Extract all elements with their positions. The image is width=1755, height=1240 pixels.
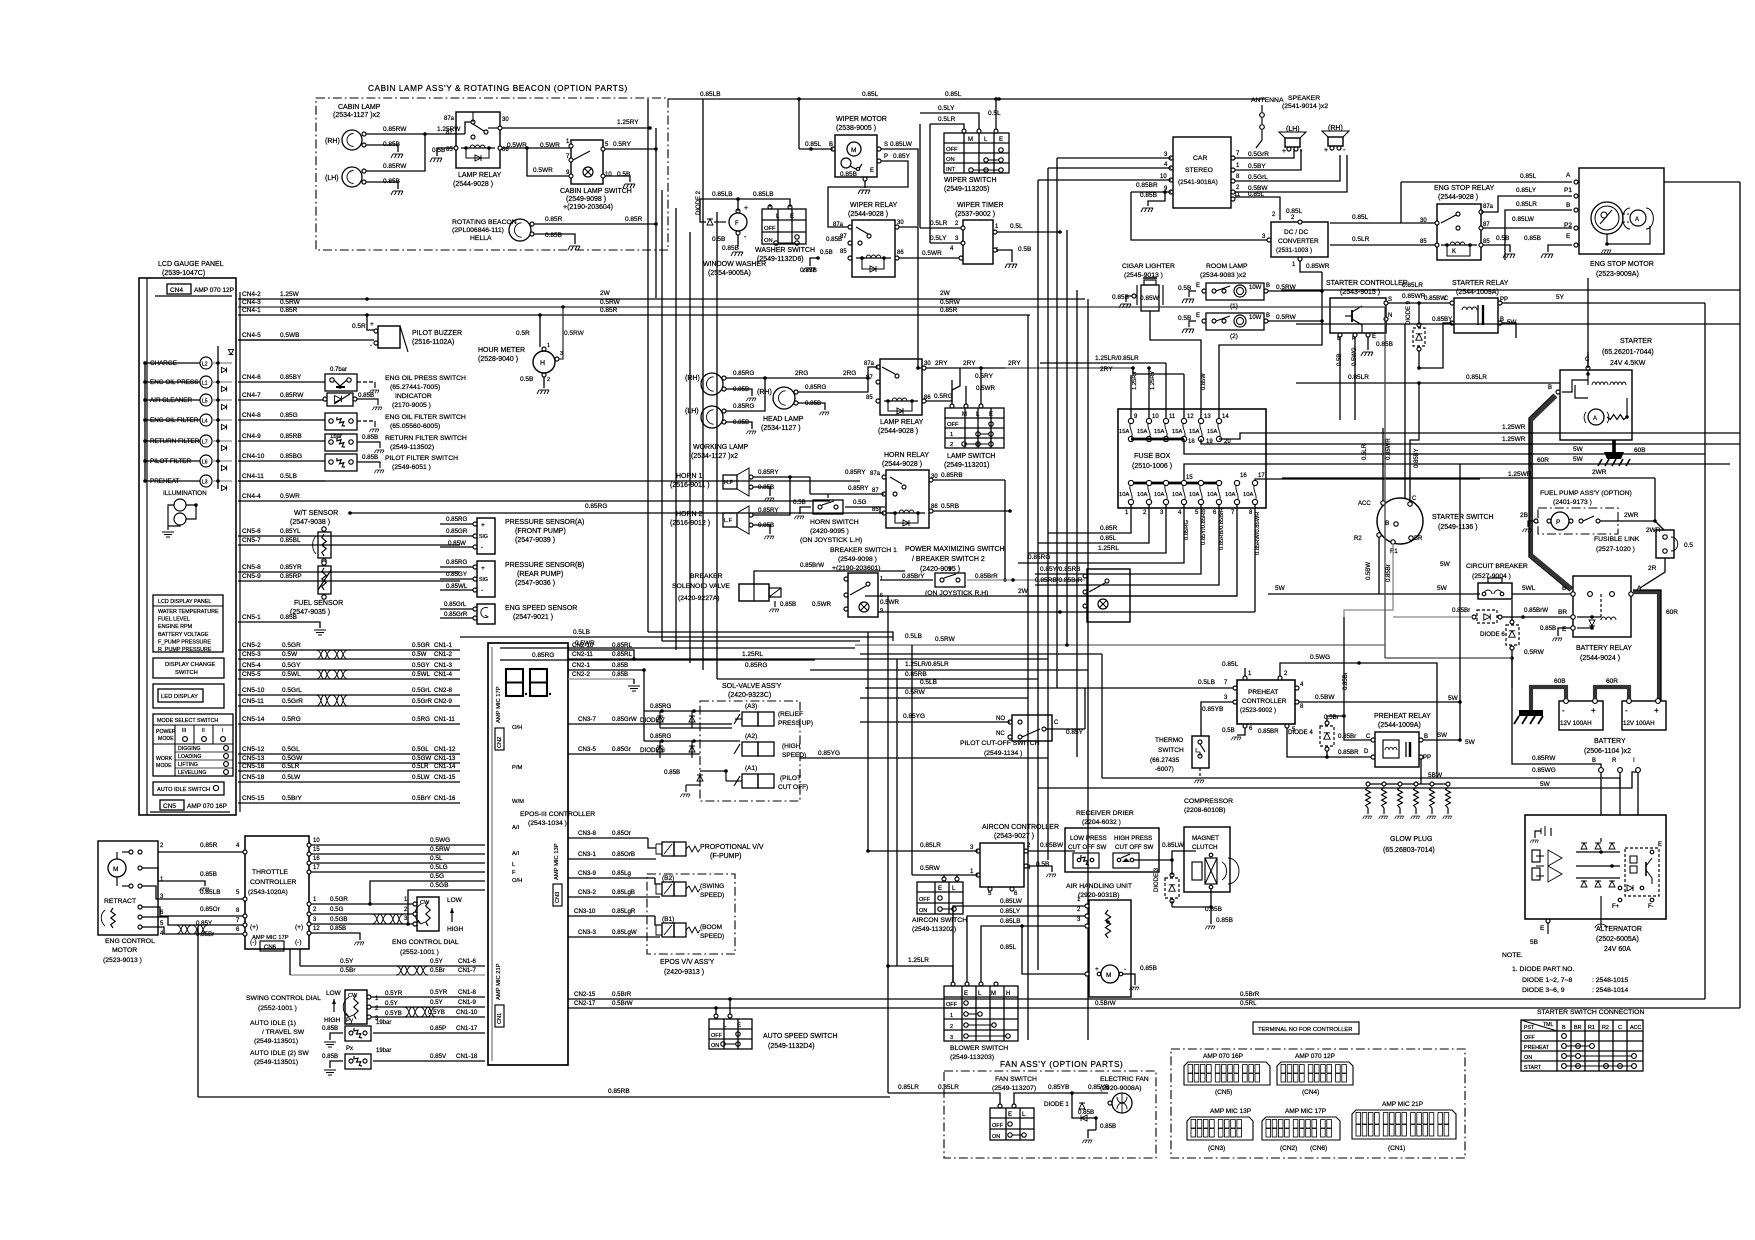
wire 2R from fusible link	[1640, 558, 1665, 588]
wire heavy 60R battery bridge	[1595, 678, 1629, 699]
wire 0.85WR from DC/DC	[1300, 261, 1330, 272]
svg-text:CN1-16: CN1-16	[434, 795, 456, 802]
svg-text:(2549-113203): (2549-113203)	[950, 1054, 994, 1061]
svg-text:LOW: LOW	[326, 990, 342, 997]
svg-text:0.85LR: 0.85LR	[1402, 282, 1423, 289]
svg-text:0.5WR: 0.5WR	[976, 385, 995, 392]
relay PREHEAT RELAY (2544-1009A)	[1338, 713, 1431, 767]
wire 0.5LB top run	[460, 536, 893, 637]
svg-text:1.25RY: 1.25RY	[617, 119, 639, 126]
connector AMP MIC 17P (CN2)(CN6)	[1262, 1108, 1340, 1152]
wire 1.25RL row	[710, 656, 1048, 659]
svg-text:2W: 2W	[940, 290, 951, 297]
svg-text:(2516-1102A): (2516-1102A)	[412, 339, 454, 346]
svg-text:0.85B: 0.85B	[664, 769, 680, 776]
svg-text:0.5RL: 0.5RL	[1240, 1000, 1257, 1007]
svg-text:+: +	[1591, 706, 1596, 715]
svg-text:(CN3): (CN3)	[1208, 1145, 1225, 1152]
wire 0.85LW to motor P2	[1483, 216, 1578, 230]
svg-text:1.25WR: 1.25WR	[1502, 424, 1526, 431]
svg-text:87a: 87a	[864, 361, 875, 367]
svg-text:E: E	[1372, 334, 1376, 340]
svg-text:0.85YG: 0.85YG	[818, 750, 840, 757]
wire 0.85RB left drop	[198, 907, 204, 1097]
wire preheat relay PP 5BW	[1421, 759, 1443, 784]
svg-text:L1: L1	[202, 381, 208, 387]
wire 0.85BY starter switch C	[1410, 383, 1420, 504]
svg-text:60B: 60B	[1634, 447, 1646, 454]
wire CN4-1 0.85R	[238, 307, 1030, 317]
svg-text:0.85RG: 0.85RG	[733, 403, 755, 410]
svg-text:(2547-9021 ): (2547-9021 )	[513, 614, 553, 621]
wire 2W long	[865, 595, 1237, 597]
svg-text:0.85BY: 0.85BY	[1414, 448, 1420, 468]
wire 0.85L to motor A	[1401, 172, 1740, 184]
svg-text:CN2-15: CN2-15	[574, 991, 596, 998]
svg-text:CN4-7: CN4-7	[242, 392, 261, 399]
svg-text:0.85W: 0.85W	[1201, 373, 1207, 390]
svg-text:ON: ON	[992, 1134, 1000, 1140]
svg-text:E: E	[1658, 842, 1662, 848]
lamp RH (cabin)	[325, 130, 366, 150]
svg-text:L4: L4	[202, 419, 208, 425]
svg-text:87: 87	[872, 488, 879, 494]
wire CN3-2 0.85LgB	[568, 889, 660, 897]
svg-text:C: C	[1366, 734, 1371, 740]
svg-text:0.5RG: 0.5RG	[412, 716, 430, 723]
svg-text:(A3): (A3)	[745, 703, 757, 710]
svg-text:(2544-9024 ): (2544-9024 )	[1580, 655, 1620, 662]
svg-text:CN4: CN4	[170, 287, 183, 294]
svg-text:B: B	[1592, 758, 1596, 764]
wire fuse2 0.85L drop	[1038, 504, 1149, 543]
wire 0.85YG from A1	[726, 750, 1048, 781]
svg-text:0.5WG: 0.5WG	[1310, 654, 1330, 661]
svg-text:0.85Gr: 0.85Gr	[612, 746, 631, 753]
svg-text:II: II	[202, 728, 205, 734]
svg-text:0.85LB: 0.85LB	[200, 889, 221, 896]
svg-text:0.85BrW: 0.85BrW	[1524, 607, 1548, 614]
svg-text:THROTTLE: THROTTLE	[252, 869, 288, 876]
svg-text:(CN2): (CN2)	[1280, 1145, 1297, 1152]
svg-text:ACC: ACC	[1630, 1025, 1641, 1031]
svg-text:B: B	[1562, 585, 1566, 592]
svg-text:9: 9	[880, 608, 883, 614]
svg-text:0.85Or: 0.85Or	[200, 906, 221, 913]
svg-text:5W: 5W	[1465, 739, 1476, 746]
relay HORN RELAY (2544-9028)	[870, 452, 938, 528]
wire 1.25LR blower feed	[886, 957, 953, 982]
svg-text:OFF: OFF	[947, 422, 959, 428]
svg-text:1.25LR/0.85LR: 1.25LR/0.85LR	[905, 661, 949, 668]
svg-text:CN1-12: CN1-12	[434, 746, 456, 753]
svg-text:FUEL PUMP ASS'Y (OPTION): FUEL PUMP ASS'Y (OPTION)	[1540, 490, 1632, 497]
wire 0.85BY to relay	[1419, 323, 1452, 368]
svg-text:0.85BR: 0.85BR	[1258, 728, 1279, 735]
wire 0.85WG to alternator	[1102, 767, 1620, 786]
svg-text:AMP MIC 17P: AMP MIC 17P	[1285, 1108, 1326, 1115]
wire 0.5L wiper switch E	[988, 97, 1001, 129]
wire 0.85RW RH	[366, 126, 425, 134]
svg-text:0.85G: 0.85G	[280, 412, 298, 419]
svg-text:0.85BY: 0.85BY	[1432, 316, 1452, 323]
svg-text:+: +	[481, 565, 485, 572]
svg-text:CN5-10: CN5-10	[242, 687, 265, 694]
svg-text:ACC: ACC	[1358, 501, 1371, 507]
svg-text:CUT OFF SW: CUT OFF SW	[1068, 844, 1107, 851]
label STARTER CONTROLLER	[1326, 280, 1408, 296]
wire eng motor pin1 0.85B	[142, 868, 217, 891]
svg-text:0.5Y: 0.5Y	[340, 958, 354, 965]
svg-text:CN5-12: CN5-12	[242, 746, 265, 753]
svg-text:0.85RG: 0.85RG	[585, 503, 607, 510]
svg-text:(RH): (RH)	[325, 138, 340, 145]
svg-text:PREHEAT: PREHEAT	[1524, 1045, 1550, 1051]
svg-text:ILLUMINATION: ILLUMINATION	[163, 490, 207, 497]
wire starter C feed	[1587, 278, 1589, 368]
breaker CIRCUIT BREAKER (2527-9004)	[1466, 563, 1571, 599]
fuse 10A #2	[1137, 480, 1152, 516]
svg-text:FAN SWITCH: FAN SWITCH	[995, 1076, 1037, 1083]
wire 0.85RG branch A2	[644, 733, 740, 743]
radio CAR STEREO (2541-9016A)	[1160, 137, 1241, 208]
svg-text:87a: 87a	[870, 471, 881, 477]
svg-text:(2420-9095 ): (2420-9095 )	[920, 566, 960, 573]
svg-text:0.5LB: 0.5LB	[905, 633, 922, 640]
svg-text:R1: R1	[1390, 549, 1398, 555]
svg-text:0.5LB: 0.5LB	[920, 679, 937, 686]
wire 0.85RG run2	[500, 652, 815, 660]
wire 0.85LR to aircon	[866, 842, 978, 853]
svg-text:0.5GrR: 0.5GrR	[412, 698, 432, 705]
svg-text:ON: ON	[919, 908, 927, 914]
svg-text:0.5BrW: 0.5BrW	[612, 1000, 633, 1007]
wire fuse1 0.85R drop	[1048, 504, 1131, 533]
diode DIODE 5	[1393, 607, 1573, 623]
svg-text:(2208-6010B): (2208-6010B)	[1184, 807, 1226, 814]
svg-text:LED DISPLAY: LED DISPLAY	[161, 694, 198, 700]
svg-text:0.5G: 0.5G	[330, 906, 344, 913]
svg-text:S: S	[884, 142, 888, 148]
svg-text:OFF: OFF	[992, 1123, 1004, 1129]
svg-text:0.85RY: 0.85RY	[845, 469, 866, 476]
svg-text:2R: 2R	[1648, 565, 1657, 572]
label EPOS V/V ASS'Y	[660, 959, 715, 976]
svg-text:(2549-113501): (2549-113501)	[254, 1059, 298, 1066]
wire 0.85B LH to ground	[366, 178, 403, 195]
svg-text:CN3-8: CN3-8	[578, 830, 596, 837]
svg-text:CN4-2: CN4-2	[242, 291, 261, 298]
fuse 10A #8	[1243, 480, 1258, 516]
label WIPER SWITCH	[944, 177, 997, 193]
svg-text:2RG: 2RG	[795, 370, 808, 377]
fuse 10A #1	[1119, 480, 1134, 516]
wire 0.85WR starter switch	[1386, 324, 1405, 502]
svg-text:13: 13	[1204, 414, 1211, 420]
svg-text:10W: 10W	[1249, 315, 1262, 321]
wire fuse5 drop	[1035, 504, 1207, 574]
svg-text:CIGAR LIGHTER: CIGAR LIGHTER	[1122, 263, 1175, 270]
wire 0.5LR starter switch ACC	[1362, 420, 1383, 501]
svg-text:(2549-113207): (2549-113207)	[992, 1085, 1036, 1092]
svg-text:B: B	[1424, 734, 1428, 740]
svg-text:(A1): (A1)	[745, 765, 757, 772]
svg-text:A: A	[1566, 172, 1571, 179]
wire 0.5LR to wiper switch	[930, 116, 964, 129]
fuse box pins 18 19 20	[1131, 433, 1266, 454]
svg-text:0.5B: 0.5B	[617, 171, 630, 178]
svg-text:1: 1	[950, 432, 953, 438]
svg-text:: 2548-1015: : 2548-1015	[1592, 977, 1629, 984]
svg-text:RETRACT: RETRACT	[104, 898, 136, 905]
svg-text:15A: 15A	[1207, 429, 1217, 435]
svg-text:0.85BW: 0.85BW	[1040, 842, 1064, 849]
svg-text:0.85LB: 0.85LB	[700, 91, 721, 98]
svg-text:0.85RG: 0.85RG	[1028, 554, 1050, 561]
label CIGAR LIGHTER	[1122, 263, 1175, 279]
wire 2WR down fusible	[1646, 478, 1664, 534]
svg-text:0.5LW: 0.5LW	[282, 774, 301, 781]
relay STARTER RELAY	[1432, 280, 1516, 333]
wire 0.5BY	[1235, 149, 1301, 170]
svg-text:CN5-5: CN5-5	[242, 671, 261, 678]
svg-text:ON: ON	[711, 1043, 719, 1049]
wire CN2-2 0.85B	[568, 671, 640, 691]
svg-text:0.85W: 0.85W	[1140, 295, 1160, 302]
svg-text:2RY: 2RY	[1100, 366, 1113, 373]
svg-text:M: M	[991, 991, 996, 997]
fuse 15A #9	[1119, 414, 1138, 442]
svg-text:(2547-9036 ): (2547-9036 )	[515, 580, 555, 587]
wire preheat pin2 0.5WG	[1280, 654, 1437, 778]
fuse 10A #4	[1172, 480, 1187, 516]
svg-text:SIG: SIG	[479, 577, 488, 583]
svg-text:PILOT FILTER SWITCH: PILOT FILTER SWITCH	[385, 455, 458, 462]
svg-text:CN3-10: CN3-10	[574, 908, 596, 915]
svg-text:TERMINAL NO FOR CONTROLLER: TERMINAL NO FOR CONTROLLER	[1258, 1027, 1352, 1033]
svg-text:PREHEAT RELAY: PREHEAT RELAY	[1374, 713, 1431, 720]
svg-text:ALTERNATOR: ALTERNATOR	[1596, 926, 1642, 933]
svg-text:0.5RG: 0.5RG	[934, 393, 953, 400]
lamp ILLUMINATION	[162, 490, 207, 537]
svg-text:SW: SW	[1437, 732, 1447, 739]
svg-text:0.85RY: 0.85RY	[758, 469, 779, 476]
svg-text:0.85RW/0.85WR: 0.85RW/0.85WR	[1255, 512, 1261, 555]
svg-text:AMP MIC 13P: AMP MIC 13P	[554, 843, 560, 880]
wire 0.5B controller B down	[1337, 337, 1343, 420]
svg-text:N: N	[1388, 313, 1392, 319]
svg-text:15A: 15A	[1154, 429, 1164, 435]
svg-text:DIODE 4: DIODE 4	[1288, 729, 1313, 736]
svg-text:0.85B: 0.85B	[1078, 1109, 1094, 1116]
svg-text:0.5WL: 0.5WL	[412, 671, 430, 678]
svg-text:HIGH: HIGH	[324, 1017, 341, 1024]
fuse 10A #6	[1207, 480, 1222, 516]
svg-text:CN1-17: CN1-17	[456, 1025, 478, 1032]
connector panel dash box	[1171, 1049, 1465, 1158]
svg-text:0.5WB: 0.5WB	[280, 332, 300, 339]
fan assy option box	[944, 1071, 1156, 1158]
svg-text:III: III	[182, 728, 186, 734]
wire 0.5WR breaker1 pin9	[812, 599, 1255, 620]
svg-text:ON: ON	[764, 238, 773, 244]
svg-text:MODE SELECT SWITCH: MODE SELECT SWITCH	[157, 718, 218, 724]
label LAMP RELAY	[453, 172, 502, 188]
wire 0.85B fan ground	[1078, 1103, 1140, 1143]
svg-text:0.85Y: 0.85Y	[893, 153, 911, 160]
starter box	[1548, 352, 1632, 440]
svg-text:(65.27441-7005): (65.27441-7005)	[390, 384, 440, 391]
svg-text:0.85Or: 0.85Or	[612, 830, 631, 837]
label FAN ASS'Y (OPTION PARTS)	[1000, 1060, 1123, 1069]
svg-text:0.85RL: 0.85RL	[612, 651, 633, 658]
svg-text:DIODE 1~2, 7~8: DIODE 1~2, 7~8	[1522, 977, 1572, 984]
svg-text:CN1-18: CN1-18	[456, 1053, 478, 1060]
svg-text:(2920-9031B): (2920-9031B)	[1078, 892, 1120, 899]
svg-text:0.5RW: 0.5RW	[600, 299, 621, 306]
svg-text:PROPOTIONAL V/V: PROPOTIONAL V/V	[700, 844, 764, 851]
svg-text:CUT OFF SW: CUT OFF SW	[1115, 844, 1154, 851]
svg-text:85: 85	[872, 507, 879, 513]
svg-text:(F-PUMP): (F-PUMP)	[710, 853, 742, 860]
wire 0.5B 85 ground	[430, 147, 454, 162]
svg-text:0.85BR: 0.85BR	[1338, 749, 1359, 756]
svg-text:(2204-6032 ): (2204-6032 )	[1082, 819, 1121, 826]
svg-text:CN1-4: CN1-4	[434, 671, 452, 678]
svg-text:0.85LW: 0.85LW	[1162, 842, 1185, 849]
wire 0.5WR branch to switch 9	[527, 148, 569, 176]
svg-text:(2552-1001 ): (2552-1001 )	[400, 949, 439, 956]
wire 0.85RW to alternator R	[1160, 645, 1601, 770]
svg-text:2W: 2W	[1018, 588, 1029, 595]
indicator PREHEAT L3	[143, 475, 232, 491]
svg-text:CN6: CN6	[264, 945, 277, 951]
svg-text:17: 17	[1258, 473, 1265, 479]
svg-text:(2527-9004 ): (2527-9004 )	[1472, 573, 1511, 580]
svg-text:10A: 10A	[1207, 492, 1217, 498]
svg-text:(2534-1127 ): (2534-1127 )	[761, 425, 801, 432]
svg-text:0.5WR: 0.5WR	[880, 599, 899, 606]
svg-text:0.85Br: 0.85Br	[1338, 733, 1356, 740]
svg-text:0.5B: 0.5B	[793, 499, 806, 506]
svg-text:CN5-7: CN5-7	[242, 537, 261, 544]
svg-text:CN5-2: CN5-2	[242, 642, 261, 649]
svg-text:0.5YR: 0.5YR	[430, 989, 448, 996]
fan ELECTRIC FAN (2920-9008A)	[1100, 1076, 1149, 1113]
svg-text:(2534-1127 )x2: (2534-1127 )x2	[333, 112, 380, 119]
svg-text:CN5-13: CN5-13	[242, 755, 265, 762]
wire 1.25RY fuse9 fuse10	[1085, 299, 1156, 409]
svg-text:(2549-1134 ): (2549-1134 )	[984, 750, 1022, 757]
label WASHER SWITCH	[755, 247, 815, 263]
wire 0.5WR wiper relay 86 to timer	[899, 246, 961, 258]
svg-text:0.85B: 0.85B	[330, 925, 346, 932]
svg-text:15: 15	[313, 847, 320, 853]
svg-text:0.85B: 0.85B	[1524, 235, 1541, 242]
svg-text:1.25W: 1.25W	[280, 291, 300, 298]
wire 0.5RW right run	[1385, 307, 1545, 658]
svg-text:0.5GrR: 0.5GrR	[282, 698, 303, 705]
svg-text:0.5WG: 0.5WG	[430, 837, 450, 844]
svg-text:15A: 15A	[1172, 429, 1182, 435]
relay ENG STOP RELAY	[1420, 204, 1494, 260]
svg-text:0.85B: 0.85B	[358, 392, 374, 399]
svg-text:15A: 15A	[1137, 429, 1147, 435]
svg-text:0.85L: 0.85L	[1100, 535, 1117, 542]
svg-text:2WR: 2WR	[1592, 469, 1607, 476]
wire 0.85B clutch ground	[1172, 889, 1233, 929]
svg-text:60R: 60R	[1537, 457, 1549, 464]
table STARTER SWITCH CONNECTION	[1521, 1009, 1644, 1071]
svg-text:0.5BY: 0.5BY	[1248, 163, 1266, 170]
svg-text:SIG: SIG	[479, 534, 488, 540]
wire CN5-5 0.5WL to CN1-4	[238, 671, 460, 679]
svg-text:DIODE 1: DIODE 1	[1044, 1101, 1069, 1108]
svg-text:0.5RW: 0.5RW	[430, 846, 451, 853]
valve assy EPOS V/V ASS'Y box	[647, 874, 735, 954]
svg-text:0.5RY: 0.5RY	[975, 373, 994, 380]
svg-text:OFF: OFF	[1524, 1035, 1535, 1041]
svg-text:2W: 2W	[600, 290, 611, 297]
wire 0.85B RH to ground	[366, 141, 403, 158]
svg-text:15A: 15A	[1119, 429, 1129, 435]
switch THERMO SWITCH (66.27435-6007)	[1150, 736, 1209, 783]
svg-text:OFF: OFF	[946, 147, 958, 153]
svg-text:SWITCH: SWITCH	[1158, 747, 1184, 754]
svg-text:AUTO SPEED SWITCH: AUTO SPEED SWITCH	[763, 1033, 838, 1040]
wire 0.5RW to aircon	[912, 865, 978, 875]
svg-text:BR: BR	[1558, 609, 1567, 616]
svg-text:+: +	[744, 205, 748, 212]
controller THROTTLE CONTROLLER (2543-1020A)	[243, 836, 311, 951]
svg-text:0.85RB: 0.85RB	[905, 671, 927, 678]
wire 0.5Y CN1-9	[371, 999, 485, 1007]
wire CN5-16 0.5LR to CN1-14	[238, 763, 460, 771]
svg-text:B: B	[1266, 313, 1270, 319]
svg-text:0.85WR: 0.85WR	[1402, 293, 1426, 300]
svg-text:(2420-9227A): (2420-9227A)	[678, 595, 720, 602]
wire CN5-4 0.5GY to CN1-3	[238, 662, 460, 670]
svg-text:CN1-10: CN1-10	[456, 1009, 478, 1016]
svg-text:MODE: MODE	[156, 763, 172, 769]
label FUEL PUMP ASS'Y (OPTION)	[1540, 490, 1632, 506]
svg-text:0.85GR: 0.85GR	[446, 528, 468, 535]
svg-text:5W: 5W	[1440, 561, 1451, 568]
svg-text:BATTERY VOLTAGE: BATTERY VOLTAGE	[158, 632, 209, 638]
label ENG CONTROL MOTOR	[103, 938, 155, 964]
svg-text:0.7bar: 0.7bar	[330, 367, 347, 373]
svg-text:AMP MIC 17P: AMP MIC 17P	[496, 686, 502, 723]
svg-text:F: F	[512, 870, 516, 876]
svg-text:12V 100AH: 12V 100AH	[1623, 720, 1655, 727]
wire 0.5GrL	[1235, 155, 1340, 181]
svg-text:14: 14	[1222, 414, 1229, 420]
svg-text:START: START	[1524, 1065, 1542, 1071]
svg-text:ENG CONTROL: ENG CONTROL	[105, 938, 155, 945]
svg-text:10A: 10A	[1189, 492, 1199, 498]
label ROOM LAMP	[1200, 263, 1248, 279]
svg-text:CN4-4: CN4-4	[242, 493, 261, 500]
svg-text:2RY: 2RY	[1008, 360, 1021, 367]
svg-text:(2538-9005 ): (2538-9005 )	[836, 125, 876, 132]
svg-text:2RG: 2RG	[843, 370, 856, 377]
wire 0.5LR into eng stop relay	[1330, 236, 1435, 245]
svg-text:(2552-1001 ): (2552-1001 )	[258, 1005, 297, 1012]
svg-text:0.85YL: 0.85YL	[280, 528, 301, 535]
wire stereo antenna	[1233, 128, 1256, 152]
svg-text:CN4-1: CN4-1	[242, 307, 261, 314]
label BATTERY RELAY	[1576, 645, 1632, 662]
